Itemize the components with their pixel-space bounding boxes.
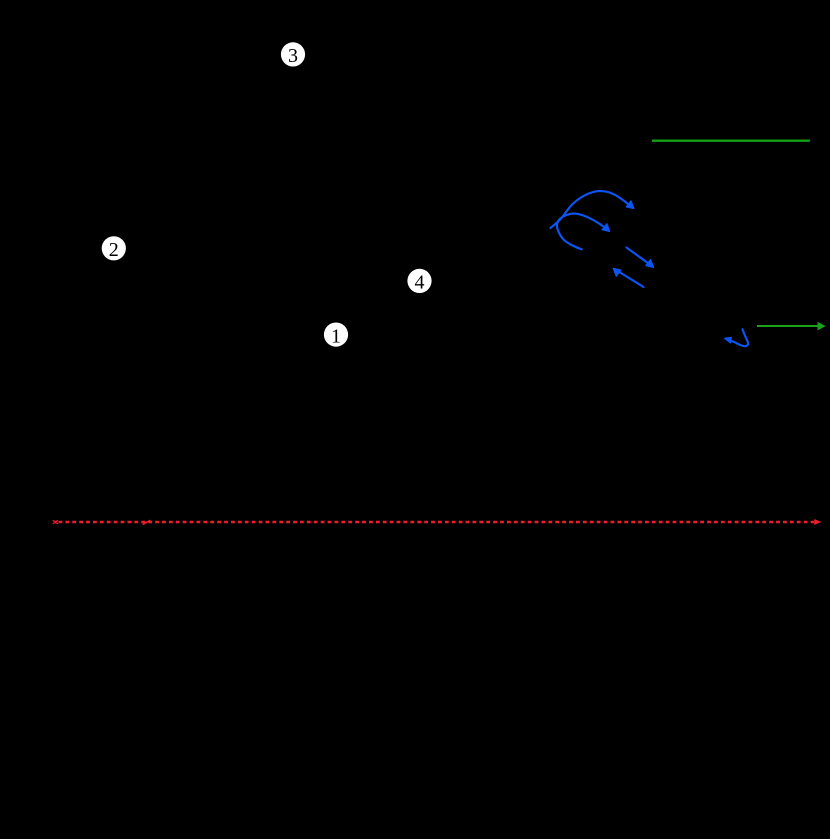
svg-text:4: 4 [415, 272, 425, 294]
svg-text:2: 2 [109, 239, 119, 261]
red slash irregularity in dashed line [143, 521, 150, 525]
red arrowhead at right end of dashed line [814, 519, 821, 525]
blue hook arrow (bottom right, head pointing left) [730, 329, 748, 346]
blue curved arrow (small loop, head lower-right) [557, 214, 606, 250]
blue straight arrow pointing down-right [627, 248, 649, 264]
green arrowhead [818, 322, 826, 331]
blue curved arrow (large arc, head lower-right) [551, 191, 630, 228]
arrowhead of down-right arrow [646, 260, 654, 268]
svg-text:3: 3 [288, 45, 298, 67]
red x mark at left end of dashed line [53, 521, 57, 524]
circled number 3 [281, 42, 305, 67]
blue straight arrow pointing up-left [619, 272, 644, 288]
svg-text:1: 1 [331, 326, 341, 348]
arrowhead of up-left arrow [613, 268, 621, 276]
circled number 1 [324, 323, 348, 348]
circled number 2 [102, 236, 126, 261]
arrowhead of large arc [626, 201, 634, 209]
red dashed horizontal line [59, 521, 815, 524]
arrowhead of hook arrow [725, 337, 732, 343]
green divider line [652, 139, 810, 141]
circled number 4 [407, 269, 431, 294]
green arrow (to the right edge) [757, 325, 819, 327]
arrowhead of small loop [602, 224, 610, 232]
